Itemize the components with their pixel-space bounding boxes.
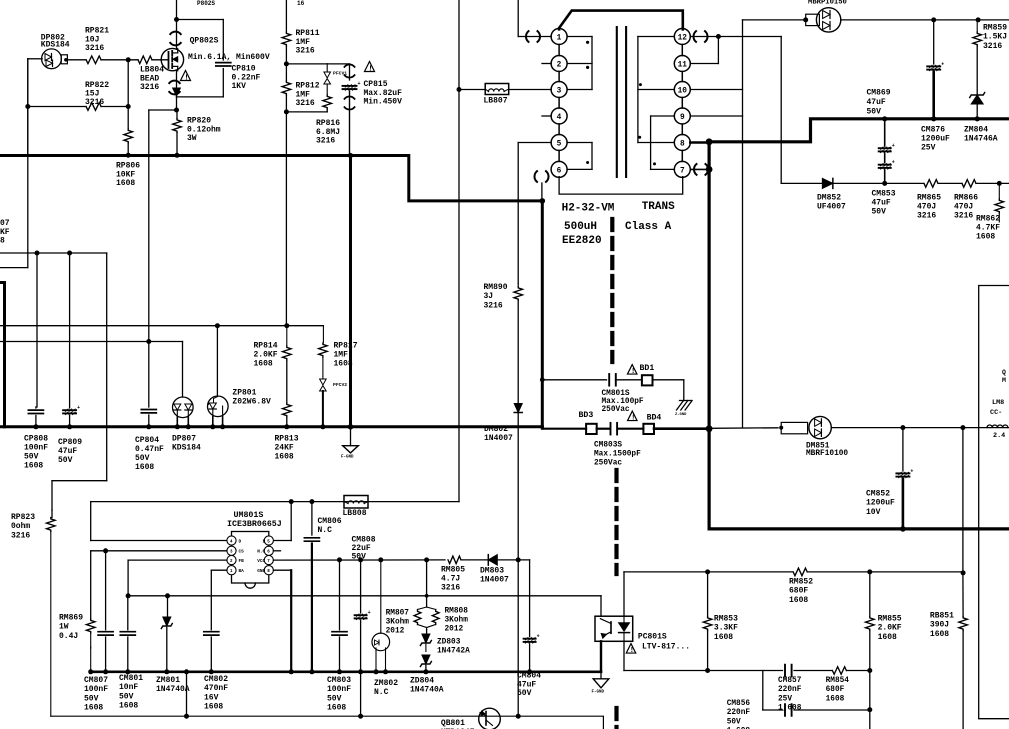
svg-text:LM8: LM8	[992, 399, 1004, 407]
svg-text:8: 8	[0, 237, 5, 246]
svg-text:7: 7	[680, 167, 685, 175]
capacitor CM808	[355, 610, 371, 619]
wire CP808 drop	[36, 253, 37, 408]
svg-text:+: +	[910, 468, 913, 474]
label RP811 1MF 3216	[296, 29, 320, 56]
coupling arc below QP802	[169, 81, 179, 95]
svg-text:1200uF: 1200uF	[921, 135, 950, 144]
label LM8 CC	[990, 399, 1004, 417]
wire DM802 down	[517, 413, 519, 560]
wire gate node down	[127, 60, 129, 129]
label RP820 0.12ohm 3W	[187, 117, 221, 144]
capacitor CM852	[896, 468, 913, 477]
svg-text:CC-: CC-	[990, 409, 1002, 417]
label CM803 100nF 50V 1608	[327, 676, 351, 713]
label RP823 0ohm 3216	[11, 513, 35, 540]
wire CM856 right	[794, 709, 870, 711]
node polarity dot secondary B	[653, 162, 656, 165]
svg-text:LB804: LB804	[140, 66, 164, 75]
wire x107 down	[52, 253, 107, 510]
svg-text:50V: 50V	[517, 689, 532, 698]
label BD3	[579, 411, 594, 420]
transistor QB801	[479, 708, 501, 729]
svg-text:RM808: RM808	[445, 608, 469, 616]
label CM806 N.C	[318, 517, 342, 535]
label DM851 MBRF10100	[806, 443, 848, 458]
label CM801S Max.100pF 250Vac	[602, 390, 644, 414]
component DM851 bypass rect	[779, 422, 807, 433]
svg-text:3W: 3W	[187, 134, 197, 143]
svg-text:+: +	[358, 81, 361, 87]
wire RM890 to DM802	[517, 301, 519, 404]
diode DM852	[822, 178, 833, 188]
wire CM876 drop	[933, 20, 935, 64]
transistor ZM802 nc	[372, 560, 390, 675]
label QP802S	[190, 37, 219, 46]
svg-text:25V: 25V	[778, 695, 792, 703]
svg-text:CP804: CP804	[135, 436, 159, 445]
svg-text:RP812: RP812	[296, 82, 320, 91]
svg-text:1608: 1608	[204, 703, 223, 712]
svg-text:1608: 1608	[826, 695, 845, 703]
wire pin7 stub	[690, 168, 709, 170]
wire CP815 bottom	[349, 91, 351, 156]
coupling arc pin12	[693, 31, 707, 42]
component MBRP10150 bypass rect	[806, 14, 820, 25]
svg-text:RM807: RM807	[386, 610, 410, 618]
svg-text:3J: 3J	[484, 292, 494, 301]
wire RP806 to bus	[126, 143, 131, 158]
wire RP823 top	[51, 510, 53, 518]
wire FB pin net	[128, 560, 227, 596]
node BD row junction	[706, 425, 713, 432]
svg-text:RP820: RP820	[187, 117, 211, 126]
resistor RP813	[283, 403, 292, 417]
svg-text:ICE3BR0665J: ICE3BR0665J	[227, 520, 282, 529]
svg-text:FB: FB	[239, 559, 245, 564]
capacitor CM804	[524, 634, 540, 643]
label BD1	[640, 364, 655, 373]
diode PFCV1 varistor	[324, 64, 331, 84]
warning triangle at QP802	[181, 71, 191, 83]
wire CP809 drop	[69, 253, 71, 408]
wire CP804 to bus	[146, 415, 151, 429]
label RM852 680F 1608	[789, 578, 813, 605]
transformer primary pin 1	[551, 29, 567, 45]
wire thick primary DC bus	[0, 156, 542, 201]
ground F-GND opto	[592, 672, 609, 695]
wire CM801 branch	[127, 596, 129, 630]
wire ZP801 legs to bus	[210, 417, 225, 429]
capacitor CP810	[216, 63, 231, 66]
wire GND pin net	[273, 570, 293, 674]
wire BA pin net	[211, 570, 227, 630]
wire pin2 bracket	[567, 63, 592, 65]
svg-text:CM801S: CM801S	[602, 390, 630, 398]
svg-text:3216: 3216	[917, 212, 936, 221]
capacitor CM807	[98, 632, 113, 635]
svg-text:47uF: 47uF	[867, 98, 886, 107]
wire thick x542 down	[540, 201, 545, 428]
svg-text:M: M	[1002, 377, 1006, 384]
wire pin12 net	[690, 34, 781, 39]
wire transformer top link	[559, 11, 683, 30]
inductor LB808	[344, 496, 368, 509]
label CM804 47uF 50V	[517, 672, 541, 699]
wire DM852 row	[781, 182, 822, 184]
svg-text:1608: 1608	[24, 462, 43, 471]
resistor RM807 RM808 pair	[414, 607, 439, 630]
svg-text:QP802S: QP802S	[190, 37, 219, 46]
capacitor CM857	[785, 665, 792, 677]
svg-text:DM852: DM852	[817, 194, 841, 203]
svg-text:2.0KF: 2.0KF	[254, 351, 278, 360]
wire fb top rail	[624, 569, 793, 574]
wire CM802 to bus	[209, 637, 214, 674]
resistor LB804 ferrite bead	[138, 56, 152, 64]
resistor RM852	[793, 568, 807, 576]
svg-text:680F: 680F	[789, 587, 808, 596]
svg-text:12: 12	[678, 34, 688, 42]
transformer primary pin 6	[551, 161, 567, 177]
wire RM854 right	[846, 670, 869, 672]
wire CM857 to RM854	[794, 670, 832, 672]
svg-text:50V: 50V	[352, 552, 367, 561]
label CM808 22uF 50V	[352, 536, 376, 562]
label Class A	[625, 221, 672, 233]
wire x28 bus drop	[27, 59, 29, 156]
svg-text:220nF: 220nF	[727, 709, 751, 717]
svg-text:07: 07	[0, 219, 10, 228]
svg-text:DP807: DP807	[172, 435, 196, 444]
wire CM808 to bus	[358, 621, 363, 675]
ground Z-GND	[675, 401, 692, 418]
transformer primary pin 5	[551, 135, 567, 151]
wire CP804 drop	[148, 342, 150, 408]
svg-text:11: 11	[678, 61, 688, 69]
svg-text:1MF: 1MF	[334, 351, 349, 360]
wire gnd tie 1	[184, 669, 189, 716]
transformer secondary pin 10	[674, 82, 690, 98]
capacitor CM869	[879, 143, 895, 152]
label CM807 100nF 50V 1608	[84, 676, 108, 713]
svg-text:CM857: CM857	[778, 677, 802, 685]
label LB807	[484, 97, 508, 106]
label ZD803 1N4742A	[437, 639, 470, 656]
svg-text:250Vac: 250Vac	[602, 406, 630, 414]
wire RB851 down	[962, 631, 964, 729]
label MBRP10150 clipped	[808, 0, 847, 7]
svg-text:5: 5	[557, 140, 562, 148]
wire CM853 to wire	[882, 170, 887, 186]
resistor RM854	[832, 667, 846, 675]
label DM802 1N4007	[484, 425, 513, 443]
label ZM802 N.C	[374, 679, 398, 697]
node thick junction x542	[540, 198, 546, 204]
capacitor CM801	[120, 632, 135, 635]
wire RP814 to RP813	[286, 360, 288, 403]
label RP816 6.8MJ 3216	[316, 119, 340, 146]
wire pin9 to rail	[690, 115, 742, 117]
svg-text:KDS184: KDS184	[41, 41, 70, 50]
svg-text:LB808: LB808	[343, 509, 367, 518]
coupling arc pin7	[694, 164, 708, 175]
wire thick secondary return	[707, 142, 710, 529]
svg-text:1MF: 1MF	[296, 90, 311, 99]
wire FB horizontal	[126, 593, 601, 598]
resistor RM853	[703, 617, 712, 631]
svg-text:ZM804: ZM804	[964, 126, 988, 135]
svg-text:1608: 1608	[327, 704, 346, 713]
label DP807 KDS184	[172, 435, 201, 453]
node heavy dots pin7 pin8	[706, 138, 713, 172]
label Min.6.1A Min600V	[188, 53, 270, 62]
svg-text:LTV-817...: LTV-817...	[642, 643, 690, 652]
svg-text:+: +	[892, 160, 895, 166]
wire output rail x743	[742, 20, 744, 428]
wire IC top rail	[91, 499, 459, 504]
svg-text:ZM802: ZM802	[374, 679, 398, 688]
wire pin11 link	[690, 37, 718, 64]
wire x518 down to bottom	[517, 560, 519, 716]
label RP813 24KF 1608	[275, 435, 299, 462]
svg-text:LB807: LB807	[484, 97, 508, 106]
svg-text:3216: 3216	[954, 212, 973, 221]
svg-text:RM862: RM862	[976, 215, 1000, 224]
svg-text:3216: 3216	[484, 301, 503, 310]
svg-text:CM876: CM876	[921, 126, 945, 135]
transformer secondary pin 11	[674, 56, 690, 72]
resistor RP811	[282, 32, 291, 46]
svg-text:47uF: 47uF	[517, 680, 536, 689]
svg-text:CM803S: CM803S	[594, 441, 622, 449]
svg-text:1N4742A: 1N4742A	[437, 648, 470, 656]
wire CM806 branch	[311, 502, 313, 535]
wire left net y253	[0, 251, 107, 256]
svg-text:+: +	[77, 405, 80, 411]
label RM866 470J 3216	[954, 194, 978, 221]
wire ZM801 to bus	[164, 628, 169, 675]
svg-text:0ohm: 0ohm	[11, 522, 30, 531]
component BD3 square	[586, 424, 597, 434]
wire current sense branch	[149, 110, 177, 342]
wire QP802 drain to top edge	[174, 0, 179, 49]
coupling arc CP815 bottom	[344, 96, 354, 109]
svg-text:VCC: VCC	[257, 559, 265, 564]
svg-text:CM852: CM852	[866, 490, 890, 499]
wire RM805 to DM803	[461, 559, 488, 561]
label CP804 0.47nF 50V 1608	[135, 436, 164, 472]
label RM808 3Kohm 2012	[445, 608, 469, 634]
resistor RM855	[866, 617, 875, 631]
svg-text:50V: 50V	[727, 718, 741, 726]
wire BD1 to ZGND	[653, 380, 684, 401]
svg-text:1N4007: 1N4007	[480, 576, 509, 585]
capacitor CP815	[343, 81, 361, 90]
svg-text:25V: 25V	[921, 144, 936, 153]
wire CM801 to bus	[125, 637, 130, 674]
diode PFCV2 varistor	[320, 357, 327, 391]
wire gnd tie 2	[360, 672, 362, 716]
svg-text:!: !	[630, 647, 634, 655]
svg-text:GND: GND	[257, 569, 265, 574]
ground F-GND primary	[341, 429, 358, 460]
svg-text:100nF: 100nF	[84, 685, 108, 694]
wire pin5 left	[518, 143, 551, 285]
svg-text:BD1: BD1	[640, 364, 655, 373]
svg-text:470nF: 470nF	[204, 684, 228, 693]
label QB801 KTD1347	[441, 719, 475, 729]
diode ZD804 zener	[420, 655, 431, 667]
wire CM804 branch	[529, 560, 531, 637]
svg-text:RM855: RM855	[878, 615, 902, 624]
svg-text:2.0KF: 2.0KF	[878, 624, 902, 633]
wire thick left drop	[0, 283, 5, 427]
svg-text:9: 9	[680, 114, 685, 122]
label ZM801 1N4740A	[156, 676, 190, 694]
svg-text:PC801S: PC801S	[638, 633, 667, 642]
wire RP822 to RP806 node	[101, 104, 131, 109]
svg-text:RM853: RM853	[714, 615, 738, 624]
label RP821 10J 3216	[85, 27, 109, 54]
wire CM807 to bus	[103, 637, 108, 674]
label CP808 100nF 50V 1608	[24, 435, 48, 471]
label CP810 0.22nF 1KV	[232, 65, 261, 92]
wire CM869 mid	[884, 154, 886, 163]
label CM803S Max.1500pF 250Vac	[594, 441, 641, 467]
label H2-32-VM	[562, 203, 615, 215]
label PC801S LTV-817	[638, 633, 690, 652]
diode MBRP10150 dual	[816, 8, 840, 32]
svg-text:CM801: CM801	[119, 674, 143, 683]
resistor RP822	[86, 103, 101, 111]
wire RB851 branch	[962, 573, 964, 617]
resistor RP814	[283, 326, 292, 360]
svg-text:1200uF: 1200uF	[866, 499, 895, 508]
wire x963 drop	[962, 428, 964, 573]
svg-text:50V: 50V	[58, 456, 73, 465]
svg-text:N.C: N.C	[318, 526, 333, 535]
svg-text:Max.82uF: Max.82uF	[364, 89, 403, 98]
wire pin10 to rail	[690, 89, 742, 91]
svg-text:24KF: 24KF	[275, 444, 294, 453]
wire RM853 branch	[707, 572, 709, 617]
svg-text:4.7J: 4.7J	[441, 575, 460, 584]
svg-text:1N4746A: 1N4746A	[964, 135, 998, 144]
wire LB804 to QP802 gate	[152, 59, 169, 61]
svg-text:3216: 3216	[85, 44, 104, 53]
svg-text:50V: 50V	[119, 692, 134, 701]
label CM801 10nF 50V 1608	[119, 674, 143, 711]
label ZD804 1N4740A	[410, 677, 444, 695]
svg-text:10V: 10V	[866, 508, 881, 517]
svg-text:1608: 1608	[714, 633, 733, 642]
svg-text:RM859: RM859	[983, 24, 1007, 33]
coupling arc above QP802	[170, 32, 180, 46]
wire pin6 bracket	[567, 168, 592, 170]
svg-text:F-GND: F-GND	[341, 455, 354, 459]
label CM852 1200uF 10V	[866, 490, 895, 517]
transformer core lines	[617, 27, 626, 177]
warning triangle CP815	[365, 62, 375, 74]
node polarity dots secondary A	[638, 83, 642, 139]
wire CM876 to bus	[931, 72, 936, 121]
wire CM803 to bus	[337, 637, 342, 674]
label clipped top fragment2	[297, 0, 305, 7]
wire secondary bracket B	[651, 116, 675, 169]
warning triangle BD4	[628, 411, 638, 422]
svg-text:100nF: 100nF	[24, 444, 48, 453]
svg-text:680F: 680F	[826, 686, 845, 694]
diode ZM804 zener	[970, 93, 985, 105]
svg-text:1608: 1608	[275, 453, 294, 462]
capacitor CP804	[141, 410, 156, 413]
coupling arc CP815 top	[344, 64, 354, 77]
wire RP816 bottom	[286, 109, 327, 112]
wire IC D-loop right	[273, 502, 291, 541]
svg-text:Q: Q	[1002, 369, 1006, 376]
transformer secondary pin 8	[674, 135, 690, 151]
svg-text:10J: 10J	[85, 35, 99, 44]
svg-text:+: +	[892, 143, 895, 149]
svg-text:1: 1	[557, 34, 562, 42]
wire RM869 branch	[90, 551, 92, 672]
wire RP811 to RP812	[284, 46, 289, 81]
wire thick secondary gnd bottom	[709, 527, 1009, 530]
wire RP811 chain top	[285, 0, 287, 32]
wire CM804 to bus	[527, 644, 532, 674]
svg-text:220nF: 220nF	[778, 686, 802, 694]
wire secondary pin links	[681, 45, 683, 162]
label RP817 1MF 1608	[334, 342, 358, 369]
svg-text:RP811: RP811	[296, 29, 320, 38]
svg-text:CM807: CM807	[84, 676, 108, 685]
svg-text:10KF: 10KF	[116, 170, 135, 179]
svg-text:N.C: N.C	[374, 688, 389, 697]
label RP822 15J 3216	[85, 81, 109, 107]
svg-text:CM806: CM806	[318, 517, 342, 526]
wire secondary bracket A	[638, 37, 674, 143]
svg-text:RM852: RM852	[789, 578, 813, 587]
svg-text:47uF: 47uF	[58, 447, 77, 456]
resistor RB851	[959, 617, 968, 631]
svg-text:3216: 3216	[85, 98, 104, 107]
svg-text:CM853: CM853	[872, 190, 896, 199]
wire CM801S to BD1	[616, 379, 642, 381]
svg-text:Max.1500pF: Max.1500pF	[594, 451, 641, 459]
label ZM804 1N4746A	[964, 126, 998, 144]
component BD4 square	[643, 424, 654, 434]
svg-text:RP806: RP806	[116, 162, 140, 171]
label DP802 KDS184	[41, 34, 70, 50]
label PFCV2	[333, 382, 347, 388]
wire right block outline	[979, 286, 1009, 719]
label CM856 220nF 50V	[727, 700, 751, 729]
label RM805 4.7J 3216	[441, 566, 465, 593]
svg-text:CS: CS	[239, 550, 245, 555]
label CM853 47uF 50V	[872, 190, 896, 217]
label CP809 47uF 50V	[58, 438, 82, 465]
transformer primary pin 3	[551, 82, 567, 98]
svg-text:RM854: RM854	[826, 677, 850, 685]
svg-text:1MF: 1MF	[296, 38, 311, 47]
wire thick primary ground bus	[0, 425, 542, 428]
wire ZP801 top	[216, 326, 218, 397]
wire CM852 to gnd	[900, 479, 906, 532]
wire x460 vertical	[458, 0, 460, 502]
svg-text:50V: 50V	[135, 454, 150, 463]
label ICE3BR0665J	[227, 520, 282, 529]
